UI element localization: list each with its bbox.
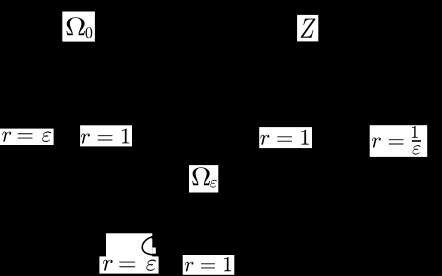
label r = 1 (bottom circle): [183, 255, 235, 275]
label Omega_epsilon (perturbed domain): [189, 165, 218, 192]
label r = 1/epsilon (outer circle): [370, 125, 428, 157]
label r = 1 (left annulus): [80, 125, 132, 146]
hook arrow curl (leader to small circle): [142, 235, 158, 255]
white patch behind hook arrow: [106, 233, 156, 257]
label r = 1 (right annulus): [259, 127, 312, 148]
label r = epsilon (left circle): [0, 129, 54, 145]
label r = epsilon (bottom small circle): [99, 256, 158, 273]
label Z (cylinder domain): [297, 15, 318, 42]
label Omega_0 (domain): [62, 12, 95, 42]
